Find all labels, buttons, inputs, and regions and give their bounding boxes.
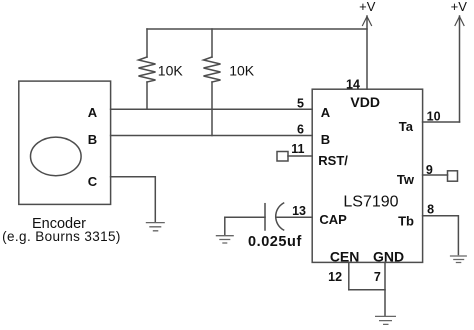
svg-text:7: 7 bbox=[374, 270, 381, 284]
svg-text:Tw: Tw bbox=[397, 172, 415, 187]
svg-text:Ta: Ta bbox=[399, 119, 414, 134]
svg-text:VDD: VDD bbox=[350, 94, 380, 110]
svg-text:5: 5 bbox=[297, 97, 304, 111]
svg-text:+V: +V bbox=[359, 0, 376, 14]
svg-text:9: 9 bbox=[426, 163, 433, 177]
svg-text:A: A bbox=[321, 105, 331, 120]
svg-text:C: C bbox=[88, 174, 98, 189]
svg-text:B: B bbox=[321, 132, 330, 147]
svg-text:Tb: Tb bbox=[398, 213, 414, 228]
svg-text:CEN: CEN bbox=[330, 248, 360, 264]
svg-text:10K: 10K bbox=[229, 63, 255, 79]
svg-text:6: 6 bbox=[297, 122, 304, 136]
svg-text:LS7190: LS7190 bbox=[343, 194, 398, 211]
svg-text:CAP: CAP bbox=[319, 212, 347, 227]
svg-text:13: 13 bbox=[292, 204, 306, 218]
svg-text:14: 14 bbox=[346, 78, 360, 92]
svg-text:A: A bbox=[88, 105, 98, 120]
svg-text:B: B bbox=[88, 132, 97, 147]
svg-text:+V: +V bbox=[451, 0, 468, 14]
svg-text:11: 11 bbox=[291, 142, 304, 156]
svg-text:RST/: RST/ bbox=[318, 153, 348, 168]
svg-text:(e.g. Bourns 3315): (e.g. Bourns 3315) bbox=[2, 229, 121, 244]
svg-text:12: 12 bbox=[328, 270, 342, 284]
svg-text:10K: 10K bbox=[158, 63, 184, 79]
svg-text:0.025uf: 0.025uf bbox=[248, 234, 302, 250]
svg-text:10: 10 bbox=[427, 110, 441, 124]
svg-text:8: 8 bbox=[427, 203, 434, 217]
svg-text:GND: GND bbox=[373, 248, 404, 264]
